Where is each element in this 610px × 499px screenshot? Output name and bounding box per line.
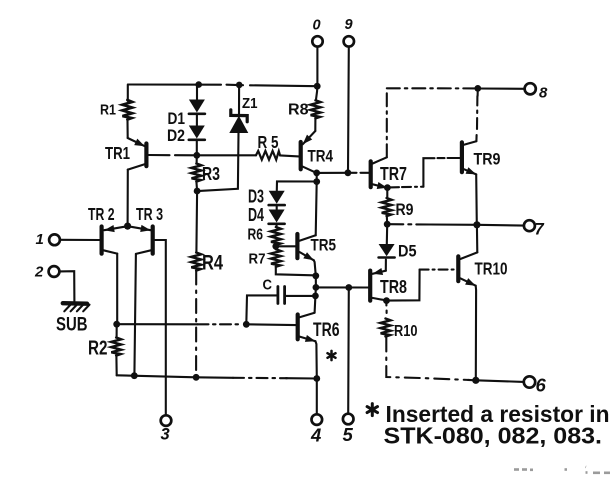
node TR5 emitter junction: [312, 272, 319, 279]
svg-text:R 5: R 5: [258, 132, 279, 152]
node R2 top junction: [113, 321, 120, 328]
wire D4 to R6: [275, 225, 277, 227]
svg-text:3: 3: [161, 426, 170, 444]
wire D1 chain from bus: [196, 85, 198, 100]
wire pin 4 stub: [316, 379, 318, 415]
wire R8 top to pin0 node: [316, 86, 317, 100]
wire pin 1 to TR2 base: [60, 239, 100, 241]
terminal pin 5: [343, 414, 354, 425]
svg-text:TR5: TR5: [311, 236, 337, 255]
wire TR1 base node to R5: [197, 154, 256, 156]
transistor TR2: [102, 225, 128, 254]
node Z1 top junction: [236, 82, 243, 89]
wire TR7 emitter step to TR9 base: [389, 158, 460, 187]
transistor TR8: [370, 268, 386, 301]
wire pin 5 stub: [347, 288, 350, 414]
ground SUB symbol: [63, 303, 90, 311]
svg-text:R9: R9: [396, 201, 414, 219]
wire TR4 top to R8: [314, 118, 316, 131]
node TR3 collector bottom junction: [131, 372, 138, 379]
resistor R4: [191, 253, 201, 271]
svg-text:TR 2: TR 2: [88, 204, 115, 224]
svg-text:SUB: SUB: [56, 314, 88, 336]
terminal pin 0: [312, 36, 322, 46]
node TR8 base rail junction: [313, 284, 320, 291]
svg-text:C: C: [263, 278, 273, 294]
transistor TR3: [128, 225, 153, 254]
wire bottom rail: [117, 375, 317, 378]
scan artifact gray dashes bottom right: [514, 467, 610, 473]
wire pin 9 stub: [347, 47, 350, 173]
svg-text:Z1: Z1: [242, 96, 258, 112]
svg-text:R1: R1: [100, 102, 116, 119]
svg-text:8: 8: [539, 85, 548, 102]
wire TR9 collector dash-dot up to pin8 node: [476, 89, 477, 142]
node R9 bottom junction: [384, 221, 391, 228]
diode D5: [379, 244, 395, 258]
node pin9 line junction: [345, 169, 352, 176]
wire TR6 emitter down to pin4 node: [316, 341, 317, 378]
wire pin 0 stub: [316, 47, 318, 86]
svg-text:TR9: TR9: [474, 150, 501, 169]
wire R10 top: [385, 301, 387, 313]
node pin5 junction: [345, 284, 352, 291]
diode D1: [189, 100, 205, 114]
wire down to TR8 base rail: [315, 276, 317, 288]
terminal pin 6: [524, 376, 535, 387]
svg-text:5: 5: [343, 424, 354, 445]
transistor TR10: [458, 252, 477, 285]
terminal pin 9: [344, 36, 354, 46]
terminal pin 2: [49, 266, 60, 277]
svg-text:R7: R7: [249, 251, 266, 268]
diode D2: [189, 126, 205, 140]
wire TR1 base to D2 node: [149, 154, 197, 156]
wire dash-dot top to pin 8 junction: [387, 87, 478, 89]
wire TR3 collector down: [134, 254, 136, 376]
node TR6 base junction: [243, 321, 250, 328]
diode D3: [269, 191, 285, 205]
resistor R8: [311, 100, 321, 118]
wire TR1 collector down to diff pair: [127, 170, 129, 226]
wire TR10 collector up to pin7 node: [476, 225, 478, 253]
svg-text:R6: R6: [248, 227, 264, 244]
wire TR7 collector dash-dot up: [386, 89, 388, 158]
transistor TR5: [297, 234, 315, 260]
wire pin 2 to ground: [59, 271, 74, 301]
terminal pin 1: [49, 234, 60, 245]
svg-text:4: 4: [310, 425, 321, 446]
svg-text:6: 6: [536, 375, 547, 396]
wire TR2 collector down: [116, 254, 118, 325]
wire TR4 emitter to TR7 base: [317, 172, 369, 174]
svg-text:7: 7: [535, 221, 545, 239]
resistor R6: [271, 227, 281, 245]
capacitor C: [278, 287, 285, 304]
wire TR5 emitter down: [314, 260, 316, 276]
svg-text:TR10: TR10: [475, 259, 508, 279]
zener Z1: [229, 110, 248, 133]
node pin6 junction: [472, 377, 479, 384]
asterisk footnote: [367, 404, 377, 416]
wire rail to TR8 base: [316, 286, 368, 288]
svg-text:STK-080, 082, 083.: STK-080, 082, 083.: [384, 423, 603, 449]
wire Z1 anode down and left to R3 bottom: [200, 133, 239, 191]
node diff pair common emitter junction: [124, 223, 131, 230]
svg-text:D2: D2: [167, 126, 185, 145]
wire to pin 8: [478, 87, 525, 89]
resistor R10: [381, 319, 391, 337]
terminal pin 7: [524, 220, 535, 231]
node pin0 junction: [314, 83, 321, 90]
node D1 top junction: [195, 81, 202, 88]
node TR1 base / R3 top: [193, 152, 200, 159]
resistor R9: [382, 198, 392, 216]
resistor R7: [271, 249, 281, 266]
wire R2 bottom corner: [115, 356, 117, 375]
transistor TR6: [298, 313, 316, 342]
svg-text:TR4: TR4: [308, 147, 334, 166]
wire top supply bus: [128, 85, 317, 87]
svg-text:TR6: TR6: [313, 320, 340, 341]
resistor R1: [122, 100, 132, 120]
node TR8 collector junction: [383, 297, 390, 304]
svg-text:TR1: TR1: [105, 143, 130, 163]
svg-text:0: 0: [313, 18, 321, 34]
wire R3 ends: [195, 155, 198, 191]
wire Z1 branch from bus: [238, 85, 240, 115]
wire TR8 collector step to TR10 base: [387, 270, 457, 301]
wire mid dash rail to TR6 base: [117, 323, 243, 325]
svg-text:R4: R4: [202, 252, 223, 275]
svg-text:TR 3: TR 3: [136, 204, 163, 224]
wire down to capacitor node: [314, 287, 317, 296]
resistor R2: [111, 338, 121, 356]
wire branch left to D3: [277, 181, 317, 190]
wire C right plate to node: [286, 295, 316, 297]
wire TR4 emitter node down to TR5 collector: [316, 182, 317, 236]
node R6 bottom / TR5 base junction: [272, 243, 279, 250]
wire R4 dash-dot down to bottom rail: [195, 271, 197, 375]
node R4 bottom junction: [193, 374, 200, 381]
wire R2 top: [116, 324, 118, 337]
wire C left plate to TR6 base node: [246, 295, 276, 324]
svg-text:2: 2: [34, 264, 44, 281]
asterisk near TR6: [328, 351, 336, 360]
node TR4 emitter junction: [313, 170, 320, 177]
node pin4 junction: [313, 375, 320, 382]
wire TR6 base: [246, 323, 295, 326]
wire R9 ends: [386, 188, 389, 225]
transistor TR7: [371, 157, 388, 189]
svg-text:R8: R8: [288, 102, 309, 119]
node capacitor / TR6 collector junction: [312, 293, 319, 300]
svg-text:R2: R2: [88, 338, 108, 360]
wire R1 branch from bus: [127, 85, 129, 102]
wire to pin 7: [477, 224, 524, 227]
wire R3 node down to R4: [195, 191, 198, 253]
wire TR3 base to pin 3: [155, 240, 166, 415]
wire to pin6 node: [468, 379, 476, 381]
wire R1 to TR1 emitter: [126, 121, 128, 138]
node pin8 junction: [474, 85, 481, 92]
wire TR6 collector up to C node: [314, 296, 317, 313]
wire D5 to TR8: [385, 260, 387, 271]
wire D2 to node: [196, 141, 198, 155]
svg-text:D4: D4: [248, 205, 264, 225]
wire to pin 6: [476, 380, 524, 382]
wire R5 to TR4 base: [280, 155, 299, 156]
node R3 bottom junction: [194, 188, 201, 195]
svg-text:TR7: TR7: [380, 164, 407, 184]
wire TR10 emitter down to pin6 node: [475, 286, 477, 381]
wire pin7 node down to D5: [386, 224, 389, 244]
svg-text:TR8: TR8: [380, 277, 407, 297]
terminal pin 8: [525, 83, 536, 94]
wire R9 node dash-dot to pin7 node: [389, 223, 477, 226]
node TR7 emitter junction: [384, 184, 391, 191]
terminal pin 4: [312, 414, 323, 425]
wire R10 dash-dot down to pin6 rail: [386, 337, 470, 381]
resistor R5: [256, 151, 280, 160]
transistor TR1: [128, 138, 147, 170]
terminal pin 3: [161, 415, 172, 426]
wire R7 bottom to TR5 emitter node: [276, 267, 313, 276]
svg-text:D5: D5: [398, 243, 417, 261]
svg-text:1: 1: [36, 231, 44, 248]
svg-text:9: 9: [345, 17, 353, 33]
wire D1 to D2: [196, 115, 198, 126]
svg-text:D3: D3: [248, 187, 264, 207]
node D3 branch junction: [313, 178, 320, 185]
transistor TR9: [462, 141, 476, 174]
wire D3 to D4: [276, 206, 278, 209]
node pin7 junction: [473, 221, 480, 228]
svg-text:R10: R10: [394, 323, 418, 340]
transistor TR4: [301, 131, 317, 173]
wire TR9 emitter down to pin7 node: [475, 174, 478, 224]
wire junction down from TR4 emitter node: [316, 173, 318, 182]
resistor R3: [192, 164, 202, 182]
wire TR5 base: [276, 245, 296, 247]
svg-text:R3: R3: [202, 164, 220, 184]
diode D4: [269, 210, 285, 224]
